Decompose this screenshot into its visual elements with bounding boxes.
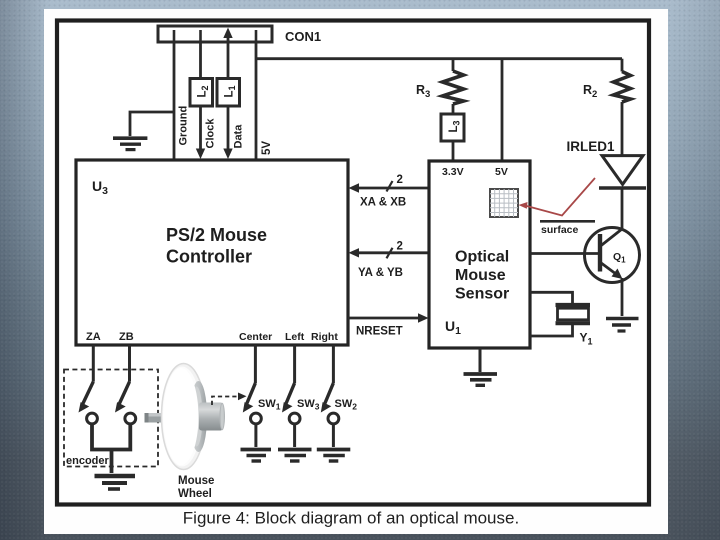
switch SW2 (Right) <box>332 345 335 383</box>
surface line <box>540 220 595 223</box>
wire NRESET (arrow into U1) <box>348 317 419 320</box>
resistor R3 <box>452 59 455 71</box>
ground Q1 <box>606 319 639 332</box>
ground SW3 <box>278 450 312 462</box>
svg-text:Data: Data <box>233 124 245 149</box>
svg-text:Controller: Controller <box>166 247 252 267</box>
IC U1 Optical Mouse Sensor <box>429 161 530 348</box>
wire SW1 to ground <box>254 424 257 447</box>
ground SW1 <box>241 450 272 462</box>
connector CON1 <box>158 26 272 42</box>
wire 5V power rail <box>256 57 622 60</box>
svg-text:Figure 4: Block diagram of an: Figure 4: Block diagram of an optical mo… <box>183 509 519 528</box>
wire SW2 to ground <box>332 424 335 447</box>
ferrite bead L3 <box>441 114 464 141</box>
svg-text:Mouse: Mouse <box>455 267 506 284</box>
wire U1 to ground <box>479 348 482 372</box>
ground encoder <box>95 476 136 489</box>
wire 5V (CON1 to U3) <box>255 42 258 160</box>
svg-text:CON1: CON1 <box>285 29 321 44</box>
svg-text:ZA: ZA <box>86 331 101 343</box>
ground U1 <box>464 374 498 385</box>
svg-text:Left: Left <box>285 331 305 343</box>
svg-text:Right: Right <box>311 331 338 343</box>
svg-text:YA & YB: YA & YB <box>358 267 403 279</box>
svg-text:NRESET: NRESET <box>356 326 403 338</box>
svg-text:5V: 5V <box>261 141 273 155</box>
wire 5V to sensor <box>501 59 504 161</box>
switch ZA <box>92 345 95 382</box>
svg-text:Optical: Optical <box>455 249 509 266</box>
svg-text:3.3V: 3.3V <box>442 166 464 178</box>
svg-text:IRLED1: IRLED1 <box>567 139 616 154</box>
svg-text:2: 2 <box>397 174 403 186</box>
ferrite bead L1 on Data line <box>217 79 240 107</box>
svg-text:2: 2 <box>397 241 403 253</box>
svg-text:Clock: Clock <box>205 118 217 149</box>
LED IRLED1 <box>602 156 643 185</box>
encoder common wire <box>92 424 130 450</box>
wire LED cathode to Q1 collector <box>621 188 624 229</box>
IC U3 PS/2 Mouse Controller <box>76 160 348 345</box>
svg-text:Mouse: Mouse <box>178 475 214 487</box>
ground symbol (connector shield) <box>113 138 147 149</box>
bus XA & XB (arrow into U3) <box>358 187 429 190</box>
wire ground branch <box>130 112 174 136</box>
mouse wheel right axle <box>199 403 223 431</box>
dashed link wheel to SW1 <box>212 397 240 406</box>
svg-text:XA & XB: XA & XB <box>360 197 406 209</box>
svg-text:Ground: Ground <box>178 106 190 146</box>
wire Data (arrow up into CON1, arrow down into U3) <box>227 37 230 149</box>
wires to crystal Y1 <box>530 292 573 303</box>
crystal Y1 <box>556 303 591 307</box>
wire Clock (CON1 to U3, arrow into U3) <box>199 42 202 149</box>
wire SW3 to ground <box>293 424 296 447</box>
svg-text:Wheel: Wheel <box>178 488 212 500</box>
transistor Q1 <box>585 228 640 283</box>
ferrite bead L2 on Clock line <box>190 79 213 107</box>
svg-text:Center: Center <box>239 331 272 343</box>
svg-text:5V: 5V <box>495 166 508 178</box>
switch SW3 (Left) <box>293 345 296 383</box>
wire Ground (CON1 to U3) <box>173 42 176 160</box>
svg-text:Sensor: Sensor <box>455 286 509 303</box>
encoder dashed box <box>64 370 158 467</box>
switch ZB <box>128 345 131 382</box>
ground SW2 <box>317 450 351 462</box>
svg-text:encoder: encoder <box>66 455 110 467</box>
svg-text:PS/2 Mouse: PS/2 Mouse <box>166 225 267 245</box>
mouse wheel left axle <box>145 413 164 423</box>
wire Q1 emitter to ground <box>621 278 624 316</box>
svg-text:surface: surface <box>541 224 579 236</box>
bus YA & YB (arrow into U3) <box>358 251 429 254</box>
diagram frame <box>57 21 649 505</box>
resistor R2 <box>621 59 624 72</box>
sensor grid window <box>490 189 518 217</box>
switch SW1 (Center) <box>254 345 257 383</box>
svg-text:ZB: ZB <box>119 331 134 343</box>
red annotation arrow <box>523 178 595 216</box>
